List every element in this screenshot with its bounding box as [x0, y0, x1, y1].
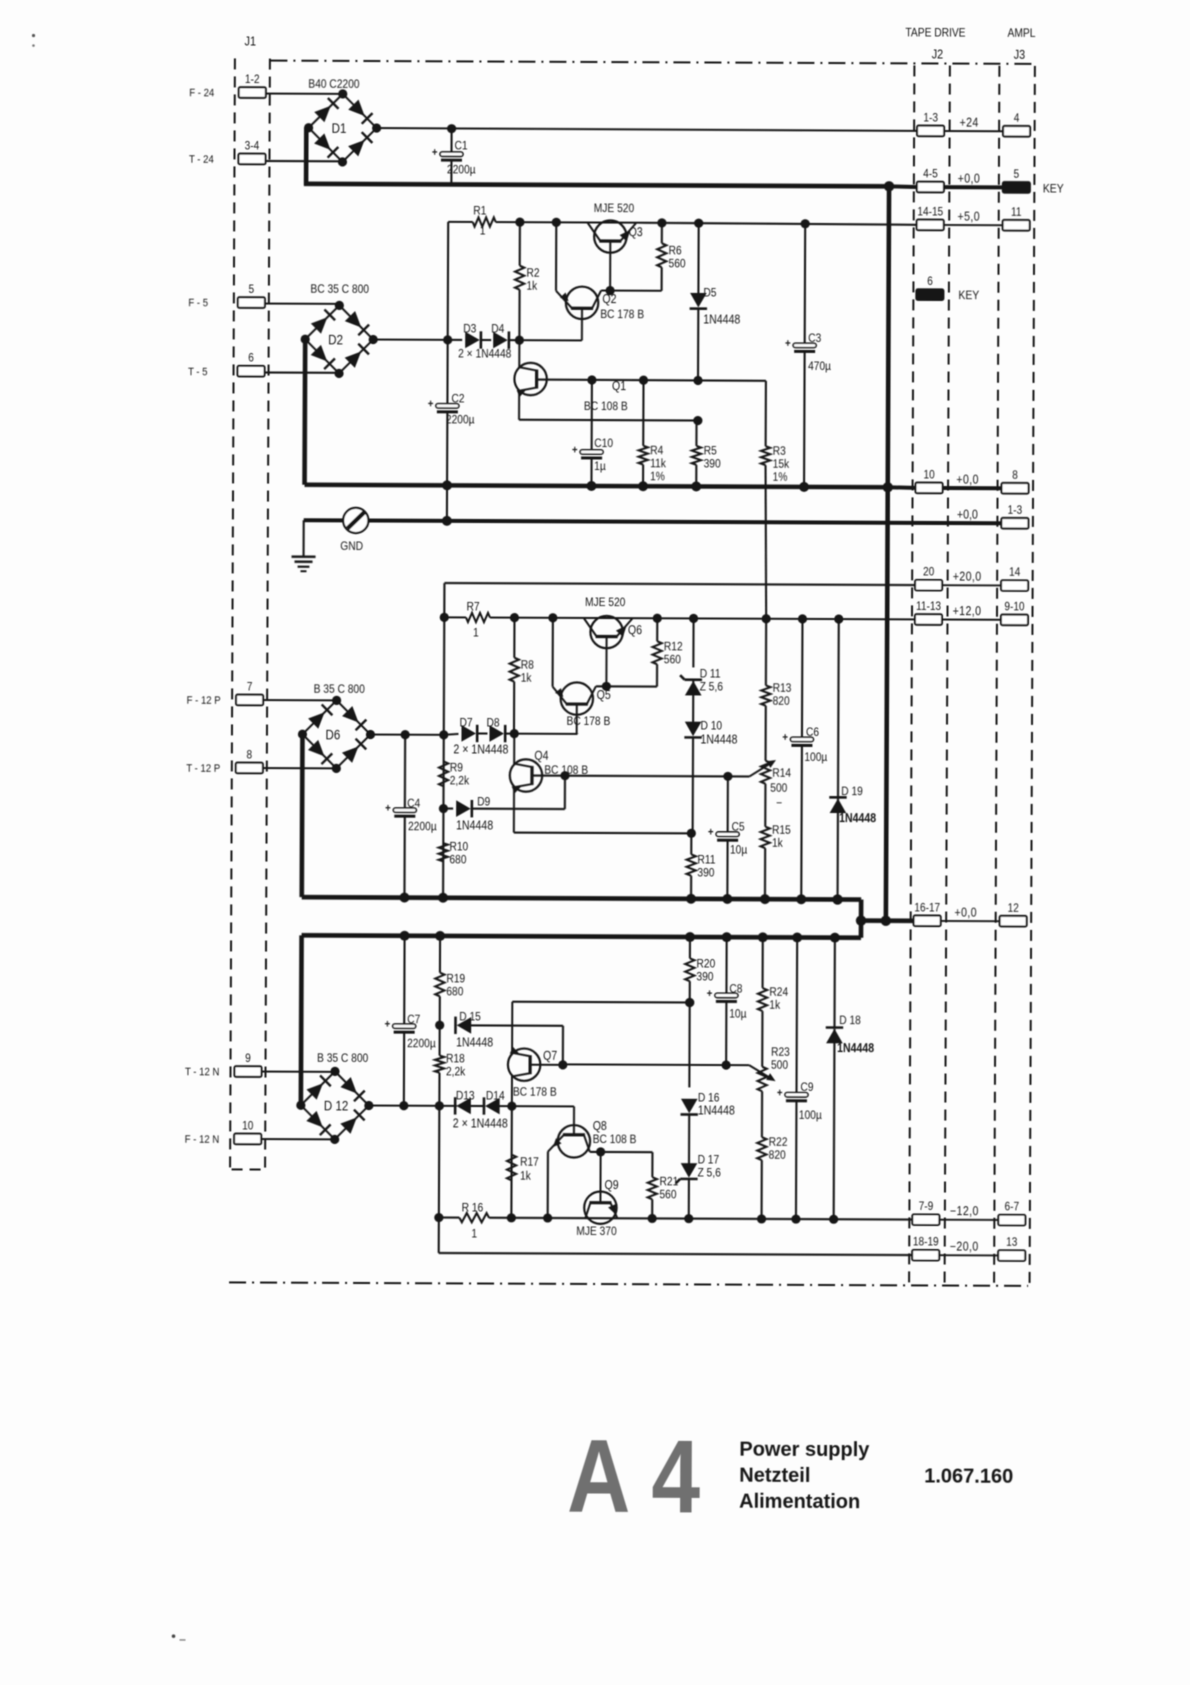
svg-text:560: 560	[669, 258, 686, 271]
svg-text:R19: R19	[446, 973, 465, 986]
svg-text:1µ: 1µ	[594, 460, 606, 473]
svg-text:BC 108 B: BC 108 B	[593, 1133, 637, 1146]
svg-text:11k: 11k	[650, 457, 666, 470]
svg-text:10: 10	[923, 469, 934, 482]
svg-text:T - 24: T - 24	[189, 153, 214, 166]
svg-text:+: +	[432, 146, 438, 159]
svg-text:1-2: 1-2	[245, 73, 260, 86]
svg-text:GND: GND	[340, 540, 363, 553]
svg-text:1-3: 1-3	[923, 112, 938, 125]
svg-text:1N4448: 1N4448	[703, 313, 740, 327]
svg-text:R5: R5	[704, 445, 717, 458]
svg-text:+24: +24	[960, 116, 979, 130]
svg-text:R7: R7	[466, 601, 479, 614]
svg-text:680: 680	[449, 854, 466, 867]
svg-text:D14: D14	[486, 1090, 505, 1103]
svg-text:F - 12 P: F - 12 P	[187, 694, 221, 707]
svg-text:+0,0: +0,0	[954, 906, 977, 920]
svg-text:1k: 1k	[521, 672, 532, 685]
svg-text:1N4448: 1N4448	[839, 811, 877, 825]
svg-text:B 35 C 800: B 35 C 800	[314, 683, 365, 696]
svg-text:Q6: Q6	[628, 623, 642, 637]
svg-text:R22: R22	[769, 1136, 788, 1149]
svg-text:+: +	[782, 731, 788, 744]
svg-text:6: 6	[927, 275, 933, 288]
svg-text:2,2k: 2,2k	[450, 775, 470, 788]
svg-text:R12: R12	[664, 641, 683, 654]
svg-text:R 16: R 16	[462, 1202, 484, 1215]
svg-text:470µ: 470µ	[808, 360, 831, 373]
svg-text:C6: C6	[806, 726, 819, 739]
svg-text:13: 13	[1006, 1236, 1017, 1249]
svg-text:1N4448: 1N4448	[837, 1041, 875, 1055]
svg-text:MJE 520: MJE 520	[594, 202, 634, 215]
svg-text:100µ: 100µ	[799, 1109, 822, 1122]
svg-text:+: +	[385, 1018, 391, 1031]
svg-text:820: 820	[773, 695, 790, 708]
svg-text:J2: J2	[932, 47, 944, 62]
svg-text:D 12: D 12	[324, 1097, 349, 1113]
svg-text:C9: C9	[800, 1081, 813, 1094]
svg-text:Q5: Q5	[597, 688, 611, 702]
svg-text:+5,0: +5,0	[957, 210, 980, 224]
svg-text:7: 7	[247, 681, 253, 694]
svg-text:16-17: 16-17	[914, 902, 940, 915]
svg-text:8: 8	[1012, 469, 1018, 482]
svg-text:D 15: D 15	[459, 1011, 481, 1024]
svg-text:100µ: 100µ	[804, 751, 827, 764]
svg-text:1k: 1k	[520, 1170, 531, 1183]
svg-text:Q7: Q7	[543, 1049, 557, 1063]
svg-text:10µ: 10µ	[729, 1008, 747, 1021]
svg-text:F - 12 N: F - 12 N	[185, 1133, 220, 1146]
svg-text:MJE 370: MJE 370	[576, 1225, 616, 1238]
svg-text:D 19: D 19	[841, 785, 863, 798]
svg-text:3-4: 3-4	[245, 140, 260, 153]
svg-text:D 11: D 11	[700, 668, 721, 681]
svg-text:390: 390	[704, 458, 721, 471]
svg-text:1N4448: 1N4448	[456, 819, 493, 833]
svg-text:Q1: Q1	[612, 379, 626, 393]
svg-text:1: 1	[473, 627, 479, 640]
svg-text:2 × 1N4448: 2 × 1N4448	[453, 1117, 508, 1131]
svg-text:Q2: Q2	[602, 292, 616, 306]
svg-text:15k: 15k	[773, 458, 790, 471]
svg-text:BC 178 B: BC 178 B	[600, 308, 644, 321]
svg-text:R11: R11	[697, 854, 715, 867]
svg-text:D2: D2	[328, 331, 343, 347]
svg-text:14: 14	[1009, 566, 1020, 579]
svg-text:D 10: D 10	[700, 720, 722, 733]
svg-text:D6: D6	[325, 726, 340, 742]
svg-text:C5: C5	[732, 821, 745, 834]
svg-text:T - 12 N: T - 12 N	[185, 1066, 219, 1079]
svg-text:1%: 1%	[650, 470, 665, 483]
svg-text:+: +	[428, 398, 434, 411]
svg-text:R23: R23	[771, 1046, 790, 1059]
svg-text:Q4: Q4	[534, 749, 549, 763]
svg-text:J3: J3	[1014, 47, 1026, 62]
svg-text:1.067.160: 1.067.160	[924, 1465, 1013, 1487]
svg-text:5: 5	[249, 283, 255, 296]
svg-text:C7: C7	[407, 1013, 420, 1026]
svg-text:C10: C10	[594, 437, 613, 450]
svg-text:+: +	[385, 802, 391, 815]
svg-text:Q9: Q9	[604, 1178, 618, 1192]
svg-text:B40 C2200: B40 C2200	[308, 78, 359, 91]
svg-text:F - 5: F - 5	[188, 297, 208, 310]
svg-text:+0,0: +0,0	[958, 172, 981, 186]
svg-text:6: 6	[248, 352, 254, 365]
svg-text:−12,0: −12,0	[950, 1204, 979, 1218]
svg-text:BC 178 B: BC 178 B	[513, 1086, 557, 1099]
svg-text:20: 20	[923, 566, 934, 579]
svg-text:1-3: 1-3	[1008, 504, 1023, 517]
svg-text:+: +	[777, 1086, 783, 1099]
svg-text:D7: D7	[459, 717, 472, 730]
svg-text:18-19: 18-19	[913, 1236, 939, 1249]
svg-text:D4: D4	[491, 323, 504, 336]
svg-text:14-15: 14-15	[917, 206, 943, 219]
svg-text:1k: 1k	[772, 837, 783, 850]
svg-text:2 × 1N4448: 2 × 1N4448	[453, 743, 508, 757]
svg-text:+20,0: +20,0	[953, 570, 982, 584]
svg-text:A 4: A 4	[567, 1419, 701, 1536]
svg-text:Q3: Q3	[629, 225, 643, 239]
svg-text:500: 500	[771, 1059, 788, 1072]
svg-text:BC 108 B: BC 108 B	[584, 400, 628, 413]
svg-text:Power supply: Power supply	[739, 1439, 870, 1462]
svg-text:390: 390	[696, 971, 713, 984]
svg-text:R24: R24	[769, 986, 788, 999]
svg-text:R9: R9	[450, 762, 463, 775]
svg-text:+12,0: +12,0	[953, 604, 982, 618]
svg-text:−20,0: −20,0	[950, 1240, 979, 1254]
svg-text:R6: R6	[669, 245, 682, 258]
svg-text:1N4448: 1N4448	[698, 1104, 735, 1118]
svg-text:KEY: KEY	[958, 289, 979, 302]
svg-text:C1: C1	[455, 140, 468, 153]
svg-text:8: 8	[247, 749, 253, 762]
svg-text:4-5: 4-5	[923, 168, 938, 181]
svg-text:R20: R20	[696, 958, 715, 971]
svg-text:820: 820	[769, 1149, 786, 1162]
svg-text:+: +	[707, 987, 713, 1000]
svg-text:9: 9	[245, 1052, 251, 1065]
svg-text:KEY: KEY	[1043, 183, 1064, 196]
svg-text:+: +	[785, 337, 791, 350]
svg-text:560: 560	[664, 654, 681, 667]
svg-text:R2: R2	[526, 267, 539, 280]
svg-text:T - 5: T - 5	[188, 365, 208, 378]
svg-text:R10: R10	[449, 841, 468, 854]
svg-text:C2: C2	[451, 393, 464, 406]
svg-text:R15: R15	[772, 824, 791, 837]
svg-text:2 × 1N4448: 2 × 1N4448	[458, 348, 511, 361]
svg-text:R4: R4	[650, 444, 663, 457]
svg-text:1%: 1%	[773, 471, 788, 484]
svg-text:500: 500	[770, 782, 787, 795]
svg-text:C3: C3	[808, 332, 821, 345]
svg-text:2200µ: 2200µ	[447, 164, 476, 177]
svg-text:Z 5,6: Z 5,6	[697, 1167, 720, 1180]
svg-text:C8: C8	[729, 983, 742, 996]
svg-text:2200µ: 2200µ	[407, 1037, 436, 1050]
svg-text:2200µ: 2200µ	[408, 820, 437, 833]
svg-text:MJE 520: MJE 520	[585, 596, 625, 609]
svg-text:R14: R14	[772, 767, 791, 780]
svg-text:R3: R3	[773, 445, 786, 458]
svg-text:C4: C4	[407, 797, 420, 810]
svg-text:D9: D9	[477, 796, 490, 809]
svg-text:10: 10	[242, 1120, 253, 1133]
svg-text:12: 12	[1008, 902, 1019, 915]
svg-text:R17: R17	[520, 1156, 539, 1169]
svg-text:Q8: Q8	[593, 1119, 607, 1133]
svg-text:+: +	[572, 444, 578, 457]
svg-text:1: 1	[480, 225, 486, 238]
svg-text:4: 4	[1014, 112, 1020, 125]
svg-text:9-10: 9-10	[1004, 601, 1024, 614]
svg-text:AMPL: AMPL	[1008, 27, 1036, 40]
svg-text:1k: 1k	[526, 280, 537, 293]
svg-text:Netzteil: Netzteil	[739, 1465, 810, 1487]
svg-text:1N4448: 1N4448	[456, 1036, 493, 1050]
svg-text:R8: R8	[521, 659, 534, 672]
svg-text:D1: D1	[332, 120, 347, 136]
svg-text:F - 24: F - 24	[189, 87, 214, 100]
svg-text:2,2k: 2,2k	[446, 1066, 466, 1079]
svg-text:+: +	[708, 826, 714, 839]
svg-text:BC 35 C 800: BC 35 C 800	[310, 283, 369, 296]
svg-text:B 35 C 800: B 35 C 800	[317, 1052, 368, 1065]
svg-text:+0,0: +0,0	[956, 473, 979, 487]
svg-text:Z 5,6: Z 5,6	[700, 681, 723, 694]
svg-text:D 17: D 17	[698, 1154, 720, 1167]
svg-text:R13: R13	[773, 682, 792, 695]
svg-text:D3: D3	[463, 323, 476, 336]
svg-text:−: −	[776, 797, 782, 810]
svg-text:Alimentation: Alimentation	[739, 1491, 860, 1514]
svg-text:D 18: D 18	[839, 1014, 861, 1027]
svg-text:BC 178 B: BC 178 B	[566, 715, 610, 728]
svg-text:TAPE DRIVE: TAPE DRIVE	[905, 27, 966, 40]
svg-text:10µ: 10µ	[730, 844, 748, 857]
svg-text:2200µ: 2200µ	[446, 414, 475, 427]
svg-text:6-7: 6-7	[1005, 1201, 1020, 1214]
svg-text:11-13: 11-13	[916, 600, 941, 613]
svg-text:11: 11	[1011, 206, 1022, 219]
svg-text:R1: R1	[473, 205, 486, 218]
svg-text:560: 560	[659, 1189, 676, 1202]
svg-text:J1: J1	[244, 34, 256, 49]
svg-text:R18: R18	[446, 1053, 465, 1066]
svg-text:5: 5	[1014, 168, 1020, 181]
svg-text:D8: D8	[487, 717, 500, 730]
svg-text:680: 680	[446, 986, 463, 999]
svg-text:1k: 1k	[769, 999, 780, 1012]
svg-text:1N4448: 1N4448	[700, 733, 737, 747]
svg-text:D13: D13	[456, 1090, 475, 1103]
svg-text:7-9: 7-9	[919, 1200, 934, 1213]
svg-text:T - 12 P: T - 12 P	[186, 762, 220, 775]
svg-text:1: 1	[471, 1228, 477, 1241]
svg-text:+0,0: +0,0	[957, 508, 978, 522]
svg-text:390: 390	[697, 867, 714, 880]
svg-text:D5: D5	[703, 287, 716, 300]
